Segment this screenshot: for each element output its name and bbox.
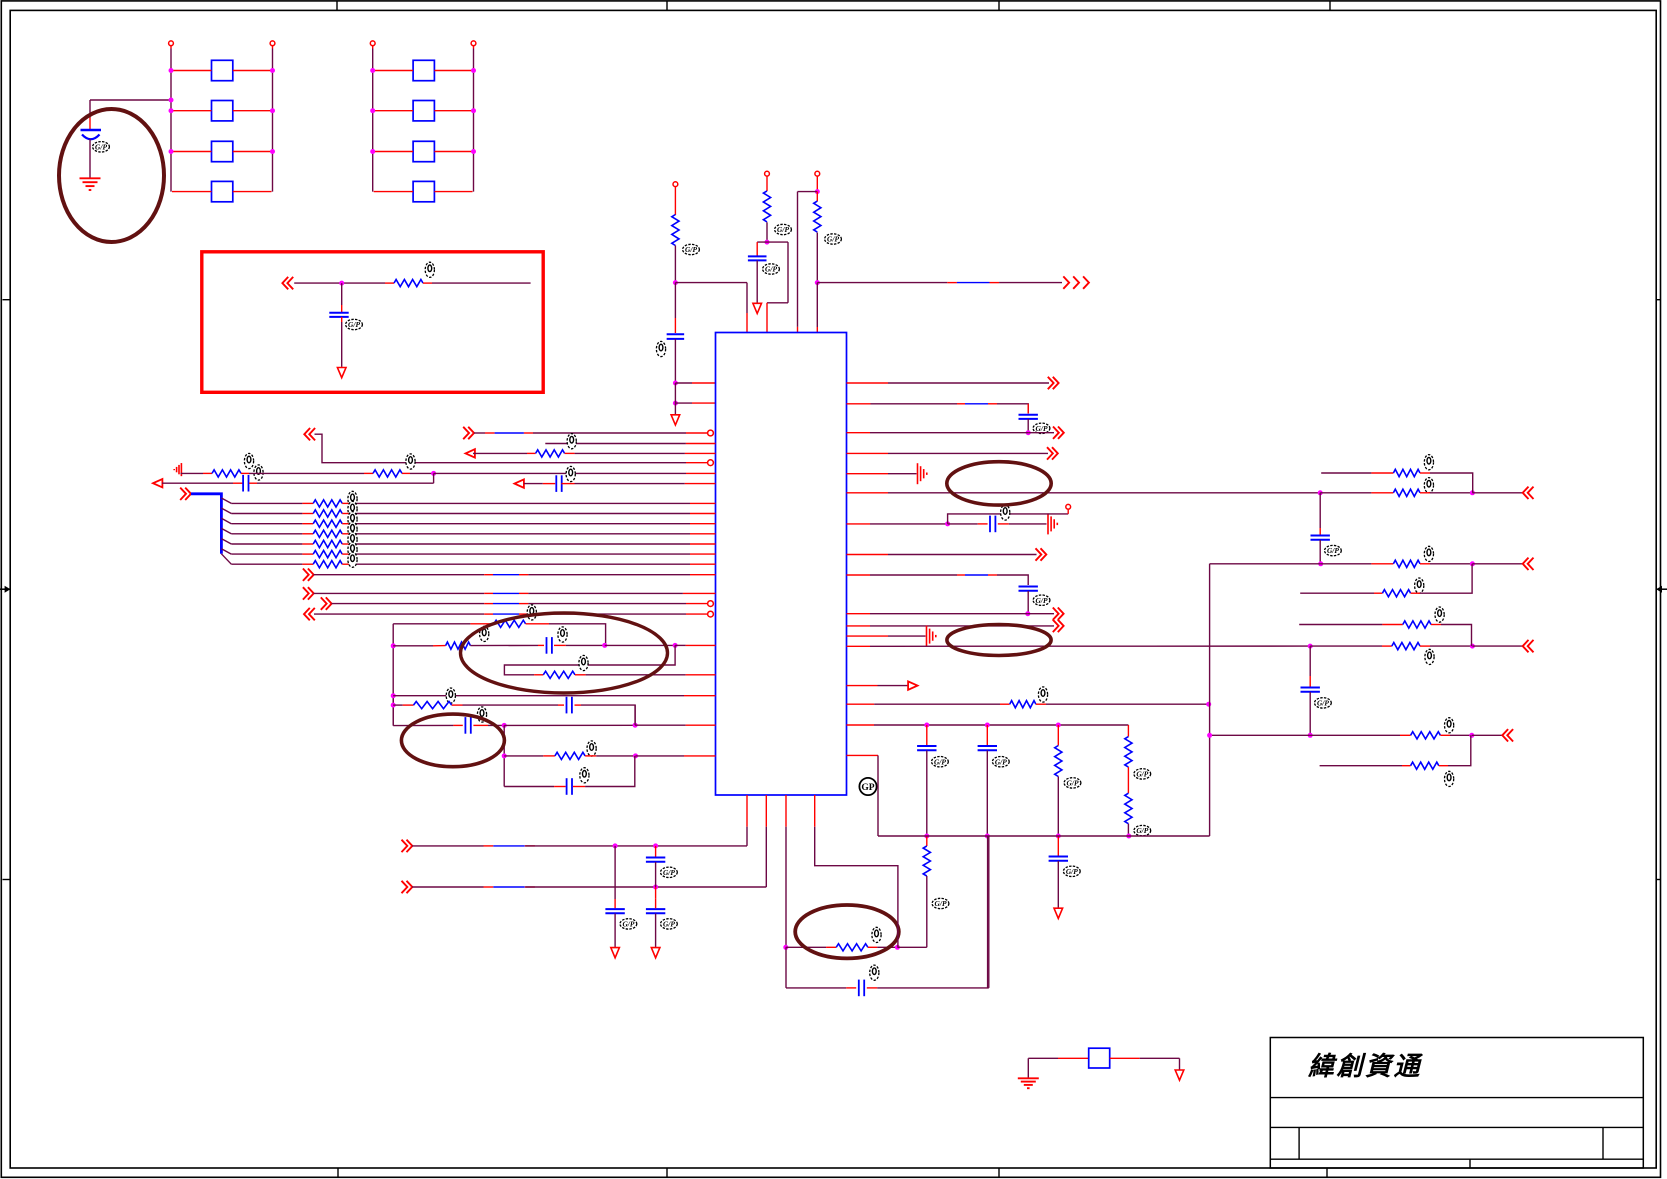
G/P label [1134,825,1151,835]
junction [673,643,678,648]
border tick [1329,1,1331,11]
wire [538,644,544,646]
G/P label [763,264,780,274]
value label [425,262,434,277]
wire [452,704,463,706]
wire [888,473,917,475]
wire [1309,646,1311,676]
wire [393,645,433,647]
off-page connector [1053,427,1064,439]
series capacitor [567,697,572,714]
title block divider [1270,1126,1643,1128]
wire [692,402,716,404]
wire [575,704,582,706]
wire [1411,592,1420,594]
power pin [673,182,678,187]
wire [1430,563,1472,565]
wire [1420,564,1472,593]
wire [463,704,559,706]
bus branch wire [221,549,231,554]
junction [339,281,344,286]
wire [528,603,686,605]
wire [525,845,535,847]
wire [655,914,657,948]
bundle resistor [313,510,342,517]
wire [528,592,683,594]
wire [554,786,566,788]
junction [945,521,950,526]
termination resistor [1392,643,1420,650]
wire [926,836,928,846]
title block divider [1298,1127,1300,1159]
wire [528,613,686,615]
border tick [998,1,1000,11]
wire [888,382,1049,384]
wire [356,533,690,535]
junction [815,280,820,285]
wire [433,645,446,647]
wire [674,339,676,383]
termination resistor [1411,762,1439,769]
border arrow left [0,586,10,593]
wire [786,946,826,948]
inverting pin [708,460,714,466]
value label [1424,455,1433,470]
off-page connector [1036,548,1047,560]
wire [1371,492,1393,494]
junction [895,945,900,950]
highlight ellipse E5 [401,714,504,767]
svg-text:G/P: G/P [95,142,107,151]
value label [348,501,357,516]
wire [690,502,716,504]
inverting pin [708,601,714,607]
bus branch wire [221,554,231,564]
svg-text:G/P: G/P [934,757,946,766]
wire [393,704,403,706]
wire [1321,563,1372,565]
title block divider [1602,1127,1604,1159]
wire [331,603,484,605]
wire [870,613,1028,615]
wire [674,283,676,318]
wire [566,644,605,646]
border tick [3,879,11,881]
wire [675,282,747,284]
wire [172,70,212,72]
wire [89,100,91,118]
wire [1028,1057,1058,1059]
wire [585,755,596,757]
wire [870,645,1310,647]
wire [686,603,708,605]
wire [614,914,616,948]
wire [342,513,356,515]
wire [493,886,525,888]
wire [172,110,212,112]
resistor pack RP2 resistor box 2 [413,101,434,121]
wire [410,472,434,474]
G/P label [1064,778,1081,788]
wire [504,755,543,757]
wire [1448,735,1471,765]
junction [602,643,607,648]
wire [356,563,690,565]
border tick [666,1168,668,1177]
G/P label [1033,423,1050,433]
wire [1027,419,1029,433]
G/P label [661,867,678,877]
wire [874,703,1000,705]
junction [673,381,678,386]
series capacitor [547,637,552,654]
junction [985,723,990,728]
wire [90,99,171,101]
wire [596,755,635,757]
wire [356,543,690,545]
wire [561,483,574,485]
wire [484,845,494,847]
wire [1382,624,1402,626]
input arrow [515,479,524,487]
off-page connector [463,427,474,439]
wire [1400,734,1411,736]
junction [370,108,375,113]
wire [847,613,871,615]
off-page connector [1047,447,1058,459]
resistor pack RP2 left rail [372,49,374,192]
wire [926,725,928,745]
value label [567,434,576,449]
wire [528,574,690,576]
wire [525,886,535,888]
wire [871,403,958,405]
wire [690,563,716,565]
wire [1110,1057,1140,1059]
off-page connector [1053,608,1064,620]
wire [870,523,948,525]
wire [766,176,768,191]
wire [636,755,685,757]
wire [172,191,212,193]
svg-text:GP: GP [861,783,874,793]
wire [990,282,1000,284]
decoupling capacitor [917,746,936,750]
off-page connector [304,428,315,440]
wire [233,191,272,193]
vertical net wire [503,725,505,786]
wire [1420,492,1430,494]
termination resistor [1403,621,1431,628]
wire [1402,765,1411,767]
wire [302,533,313,535]
value label [348,552,357,567]
wire [877,755,879,836]
parallel capacitor [567,778,572,795]
junction [1207,733,1212,738]
wire [888,635,926,637]
wire [484,886,494,888]
wire [897,946,926,948]
series capacitor [859,980,864,997]
junction [391,703,396,708]
wire [545,443,686,445]
wire [527,452,536,454]
title block tick [1469,1159,1471,1168]
wire [797,192,799,327]
signal ground [927,626,936,647]
wire [493,613,519,615]
wire [987,836,989,988]
wire [847,754,879,756]
capacitor [1311,536,1330,540]
resistor pack RP1 right pin [270,41,275,46]
wire [233,482,243,484]
wire [484,592,493,594]
resistor pack RP1 left lead [170,46,172,49]
wire [1309,692,1311,735]
resistor pack RP1 resistor box 4 [212,181,233,201]
G/P label [932,898,949,908]
value label [348,542,357,557]
wire [504,786,554,788]
wire [231,563,302,565]
vertical net wire [392,696,394,726]
junction [1470,490,1475,495]
resistor pack RP2 left pin [370,41,375,46]
junction [1056,723,1061,728]
wire [543,483,555,485]
G/P label [932,757,949,767]
wire [690,574,716,576]
junction [673,401,678,406]
border tick [336,1,338,11]
wire [453,724,462,726]
junction [270,108,275,113]
wire [89,139,91,178]
wire [816,233,818,283]
junction [1469,733,1474,738]
vertical net wire [392,624,394,726]
svg-text:G/P: G/P [1327,546,1339,555]
svg-text:G/P: G/P [663,920,675,929]
wire [674,246,676,283]
resistor [1125,793,1132,824]
border tick [666,1,668,11]
wire [356,502,690,504]
wire [1472,492,1523,494]
value label [566,466,575,481]
wire [1000,703,1010,705]
wire [519,592,528,594]
wire [948,514,1069,524]
wire [756,242,758,255]
bundle resistor [313,520,342,527]
wire [1320,765,1402,767]
resistor pack RP2 resistor box 3 [413,141,434,161]
value label [1424,478,1433,493]
wire [1319,540,1321,564]
junction [270,149,275,154]
wire [393,623,470,625]
G/P label [1325,545,1342,555]
wire [1430,473,1473,493]
wire [342,553,356,555]
wire [1320,492,1371,494]
wire [847,432,871,434]
G/P label [1134,769,1151,779]
capacitor [646,858,665,862]
junction [391,693,396,698]
ground arrow [1054,908,1063,918]
resistor [1125,737,1132,768]
off-page connector [303,587,314,599]
wire [847,382,889,384]
off-page connector [402,881,413,893]
junction [673,280,678,285]
wire [690,513,716,515]
wire [403,704,414,706]
svg-text:G/P: G/P [1136,770,1148,779]
wire [686,724,716,726]
wire [302,543,313,545]
off-page connector [304,608,315,620]
wire [986,725,988,745]
wire [847,523,871,525]
wire [302,502,313,504]
wire [470,623,493,625]
wire [1310,734,1400,736]
value label [348,522,357,537]
wire [1028,613,1054,615]
svg-text:G/P: G/P [1067,779,1079,788]
wire [341,283,343,305]
wire [341,317,343,322]
output arrow [908,681,917,689]
wire [1300,592,1374,594]
wire [826,946,836,948]
wire [1371,563,1393,565]
junction [502,753,507,758]
GP circle label [859,778,876,795]
termination resistor [1411,732,1441,739]
wire [162,482,233,484]
wire [1057,777,1059,837]
junction [653,843,658,848]
bundle resistor [313,561,342,568]
ground arrow [611,948,620,958]
junction [1206,702,1211,707]
wire [765,827,767,887]
wire [364,472,373,474]
wire [231,533,302,535]
wire [525,845,747,847]
wire [675,402,692,404]
junction [169,68,174,73]
junction [924,723,929,728]
title block divider [1270,1158,1643,1160]
wire [1371,472,1393,474]
wire [342,523,356,525]
G/P label [825,234,842,244]
wire [181,472,204,474]
wire [543,755,555,757]
signal ground [918,463,927,484]
resistor R in box [394,280,423,287]
value label [1445,771,1454,786]
wire [1028,432,1054,434]
G/P label [775,224,792,234]
wire [231,553,302,555]
junction [1308,733,1313,738]
wire [393,695,684,697]
border tick [1656,299,1661,301]
wire [385,282,394,284]
ferrite bead FB1 [1089,1048,1110,1068]
wire [1321,472,1371,474]
series resistor [373,470,402,477]
wire [314,574,485,576]
wire [846,987,856,989]
wire [746,827,748,846]
svg-text:G/P: G/P [685,245,697,254]
bus wire [191,494,221,554]
series resistor [212,470,241,477]
wire [1309,676,1311,687]
wire [484,613,493,615]
junction [370,68,375,73]
ground arrow [1175,1070,1184,1080]
wire [341,322,343,367]
border tick [3,299,11,301]
junction [169,108,174,113]
highlight ellipse E6 [461,613,668,693]
wire [1319,528,1321,535]
bus branch wire [221,498,231,503]
wire [655,846,657,857]
wire [434,191,472,193]
wire [847,473,889,475]
wire [586,674,686,676]
wire [1027,1058,1029,1078]
wire [787,242,789,303]
pull-up resistor R2 [763,191,770,222]
wire [847,403,871,405]
resistor pack RP2 right lead [473,46,475,49]
wire [432,282,531,284]
wire [785,827,787,948]
decoupling capacitor [1019,587,1038,591]
svg-text:G/P: G/P [777,225,789,234]
svg-text:G/P: G/P [1036,424,1048,433]
wire [847,645,871,647]
wire [635,724,686,726]
wire [519,603,528,605]
border arrow right [1656,586,1667,593]
wire [847,685,878,687]
wire [233,151,272,153]
wire [957,574,965,576]
earth ground [80,178,101,190]
bundle resistor [313,530,342,537]
input arrow [466,449,475,457]
wire [685,483,716,485]
wire [1127,824,1129,836]
wire [847,492,889,494]
wire [488,724,504,726]
value label [1435,607,1444,622]
series resistor [836,944,868,951]
